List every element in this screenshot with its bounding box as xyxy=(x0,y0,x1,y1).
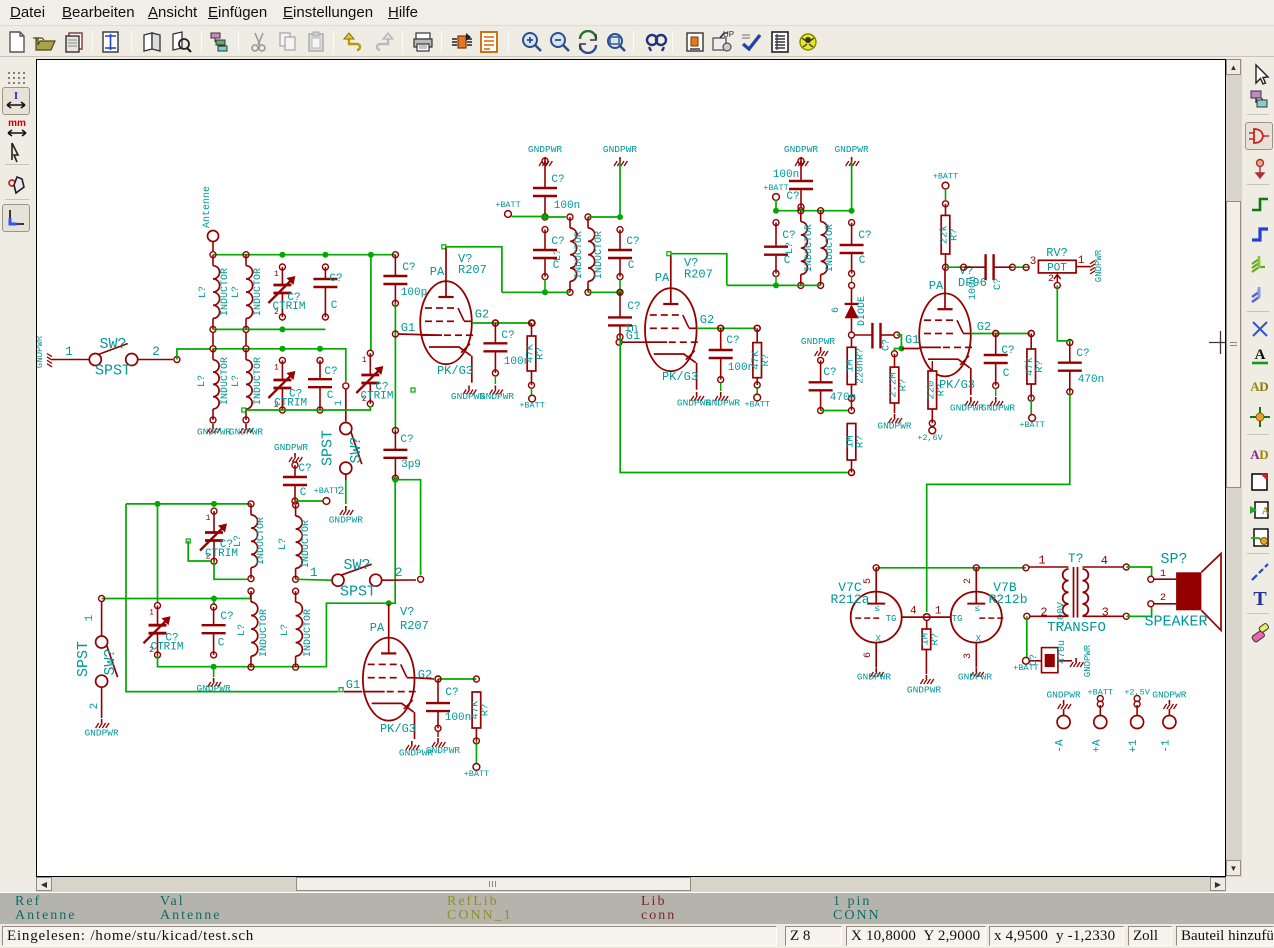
svg-text:C?: C? xyxy=(329,273,342,285)
svg-text:CTRIM: CTRIM xyxy=(205,548,238,560)
svg-text:1: 1 xyxy=(65,344,73,359)
svg-text:2: 2 xyxy=(152,344,160,359)
svg-text:V?: V? xyxy=(400,605,414,619)
svg-text:3: 3 xyxy=(1030,256,1037,268)
svg-text:100n: 100n xyxy=(968,276,979,300)
svg-text:TG: TG xyxy=(952,614,963,624)
svg-text:1: 1 xyxy=(149,609,154,618)
svg-text:R?: R? xyxy=(856,348,867,360)
svg-text:2: 2 xyxy=(1040,606,1047,620)
svg-text:GNDPWR: GNDPWR xyxy=(801,336,836,347)
svg-text:C: C xyxy=(859,255,866,267)
svg-text:SPEAKER: SPEAKER xyxy=(1144,614,1207,631)
svg-text:+BATT: +BATT xyxy=(1019,420,1045,430)
svg-text:GNDPWR: GNDPWR xyxy=(958,672,993,683)
svg-text:≤: ≤ xyxy=(874,604,879,614)
svg-text:INDUCTOR: INDUCTOR xyxy=(220,357,231,405)
svg-text:R212a: R212a xyxy=(830,592,869,607)
svg-text:INDUCTOR: INDUCTOR xyxy=(259,609,270,657)
svg-text:INDUCTOR: INDUCTOR xyxy=(301,520,312,568)
svg-text:+BATT: +BATT xyxy=(763,183,789,193)
svg-text:+A: +A xyxy=(1091,739,1103,753)
svg-text:+1: +1 xyxy=(1128,739,1140,753)
svg-text:+BATT: +BATT xyxy=(744,400,770,410)
svg-text:SPST: SPST xyxy=(75,641,92,677)
svg-text:100p: 100p xyxy=(401,287,427,299)
svg-text:C: C xyxy=(784,255,791,267)
svg-text:PA: PA xyxy=(929,279,944,293)
svg-text:2: 2 xyxy=(395,565,403,580)
svg-text:SPST: SPST xyxy=(320,430,337,466)
svg-text:GNDPWR: GNDPWR xyxy=(37,335,45,368)
svg-text:+BATT: +BATT xyxy=(519,401,545,411)
svg-text:220n: 220n xyxy=(856,360,867,384)
svg-text:6: 6 xyxy=(863,652,874,658)
svg-text:C?: C? xyxy=(1001,345,1014,357)
svg-text:≤: ≤ xyxy=(975,604,980,614)
svg-text:UP: UP xyxy=(723,30,734,39)
svg-text:GNDPWR: GNDPWR xyxy=(1094,249,1104,282)
svg-text:C: C xyxy=(331,300,338,312)
svg-text:C?: C? xyxy=(627,301,640,313)
svg-text:1: 1 xyxy=(310,565,318,580)
svg-text:+BATT: +BATT xyxy=(314,486,340,496)
svg-text:C: C xyxy=(327,390,334,402)
svg-text:INDUCTOR: INDUCTOR xyxy=(256,517,267,565)
svg-text:INDUCTOR: INDUCTOR xyxy=(253,268,264,316)
svg-text:C?: C? xyxy=(823,367,836,379)
svg-text:GNDPWR: GNDPWR xyxy=(834,144,869,155)
svg-text:C: C xyxy=(300,487,307,499)
svg-text:C?: C? xyxy=(626,236,639,248)
svg-text:2: 2 xyxy=(89,703,101,710)
svg-text:CTRIM: CTRIM xyxy=(360,391,393,403)
svg-text:+BATT: +BATT xyxy=(495,200,521,210)
svg-text:GNDPWR: GNDPWR xyxy=(196,683,231,694)
svg-text:L?: L? xyxy=(237,624,248,636)
svg-text:1: 1 xyxy=(334,400,345,406)
svg-text:1: 1 xyxy=(362,356,367,365)
svg-text:6: 6 xyxy=(831,307,842,313)
svg-text:-A: -A xyxy=(1055,739,1067,753)
svg-text:R207: R207 xyxy=(684,268,713,282)
svg-text:C?: C? xyxy=(782,230,795,242)
svg-text:T?: T? xyxy=(1068,551,1084,566)
svg-text:R?: R? xyxy=(855,435,867,448)
svg-text:2: 2 xyxy=(338,486,345,498)
svg-text:GNDPWR: GNDPWR xyxy=(84,728,119,739)
svg-text:R?: R? xyxy=(949,228,961,241)
svg-text:4: 4 xyxy=(910,605,917,617)
svg-text:3: 3 xyxy=(1102,606,1109,620)
svg-text:G1: G1 xyxy=(401,321,415,335)
svg-text:C?: C? xyxy=(993,278,1004,290)
svg-text:SW?: SW? xyxy=(348,436,365,463)
svg-text:3p9: 3p9 xyxy=(401,459,421,471)
svg-text:POT: POT xyxy=(1047,263,1067,275)
svg-text:470u: 470u xyxy=(1057,640,1068,664)
svg-text:INDUCTOR: INDUCTOR xyxy=(804,224,815,272)
svg-text:T: T xyxy=(1253,588,1267,610)
svg-text:+BATT: +BATT xyxy=(933,172,959,182)
svg-text:DIODE: DIODE xyxy=(857,296,868,326)
svg-text:C?: C? xyxy=(298,463,311,475)
svg-text:C: C xyxy=(628,260,635,272)
svg-text:GNDPWR: GNDPWR xyxy=(528,144,563,155)
svg-text:C?: C? xyxy=(501,330,514,342)
svg-text:D: D xyxy=(1259,379,1268,394)
svg-text:G1: G1 xyxy=(905,333,919,347)
svg-text:GNDPWR: GNDPWR xyxy=(426,745,461,756)
svg-text:GNDPWR: GNDPWR xyxy=(907,685,942,696)
svg-text:R?: R? xyxy=(535,347,547,360)
svg-text:SPST: SPST xyxy=(340,584,376,601)
svg-text:L?: L? xyxy=(233,535,244,547)
svg-text:+2,6V: +2,6V xyxy=(917,433,943,443)
svg-text:G2: G2 xyxy=(418,668,432,682)
svg-text:Antenne: Antenne xyxy=(202,186,213,228)
svg-text:R?: R? xyxy=(479,704,491,717)
svg-text:INDUCTOR: INDUCTOR xyxy=(825,224,836,272)
svg-text:L?: L? xyxy=(278,538,289,550)
svg-text:SW?: SW? xyxy=(99,336,126,353)
svg-text:GNDPWR: GNDPWR xyxy=(329,515,364,526)
svg-text:G2: G2 xyxy=(700,313,714,327)
svg-text:L?: L? xyxy=(197,375,208,387)
svg-text:C?: C? xyxy=(551,174,564,186)
svg-text:C?: C? xyxy=(551,236,564,248)
svg-text:GNDPWR: GNDPWR xyxy=(877,421,912,432)
svg-text:mm: mm xyxy=(8,118,26,129)
svg-text:2: 2 xyxy=(1048,274,1054,285)
svg-text:GNDPWR: GNDPWR xyxy=(274,442,309,453)
svg-text:GNDPWR: GNDPWR xyxy=(197,427,232,438)
svg-text:G1: G1 xyxy=(626,329,640,343)
svg-text:L?: L? xyxy=(198,286,209,298)
svg-text:GNDPWR: GNDPWR xyxy=(1083,644,1093,677)
svg-text:PA: PA xyxy=(430,265,445,279)
svg-text:L?: L? xyxy=(231,286,242,298)
svg-text:CTRIM: CTRIM xyxy=(150,642,183,654)
svg-text:RV?: RV? xyxy=(1046,246,1068,260)
svg-text:R212b: R212b xyxy=(988,592,1027,607)
svg-text:100V: 100V xyxy=(1057,602,1068,626)
svg-text:CTRIM: CTRIM xyxy=(272,301,305,313)
svg-text:SPST: SPST xyxy=(95,363,131,380)
svg-text:PA: PA xyxy=(655,271,670,285)
svg-text:GNDPWR: GNDPWR xyxy=(1152,690,1187,701)
svg-text:INDUCTOR: INDUCTOR xyxy=(574,231,585,279)
svg-text:3: 3 xyxy=(963,653,974,659)
svg-text:4: 4 xyxy=(1101,554,1108,568)
svg-text:R?: R? xyxy=(935,384,947,397)
svg-text:1: 1 xyxy=(1078,255,1085,267)
svg-text:100n: 100n xyxy=(554,200,580,212)
svg-text:470n: 470n xyxy=(1078,374,1104,386)
svg-text:C?: C? xyxy=(726,335,739,347)
svg-text:470n: 470n xyxy=(830,392,856,404)
svg-text:L?: L? xyxy=(280,624,291,636)
svg-text:GNDPWR: GNDPWR xyxy=(784,144,819,155)
svg-text:INDUCTOR: INDUCTOR xyxy=(594,231,605,279)
svg-text:2: 2 xyxy=(1160,593,1166,604)
svg-text:C?: C? xyxy=(400,434,413,446)
svg-text:5: 5 xyxy=(863,578,874,584)
svg-text:C?: C? xyxy=(882,339,893,351)
svg-text:2: 2 xyxy=(963,578,974,584)
svg-text:A: A xyxy=(1262,506,1270,517)
svg-text:1: 1 xyxy=(206,514,211,523)
svg-text:GNDPWR: GNDPWR xyxy=(229,427,264,438)
svg-text:C?: C? xyxy=(1029,654,1040,666)
svg-text:C: C xyxy=(218,638,225,650)
svg-text:C?: C? xyxy=(858,230,871,242)
svg-text:L?: L? xyxy=(231,375,242,387)
svg-text:TG: TG xyxy=(886,614,897,624)
svg-text:C: C xyxy=(553,260,560,272)
svg-text:+BATT: +BATT xyxy=(464,769,490,779)
svg-text:PA: PA xyxy=(370,621,385,635)
svg-text:R207: R207 xyxy=(458,263,487,277)
svg-text:GNDPWR: GNDPWR xyxy=(981,403,1016,414)
svg-text:G1: G1 xyxy=(346,678,360,692)
svg-text:G2: G2 xyxy=(475,308,489,322)
svg-text:C?: C? xyxy=(1076,348,1089,360)
svg-text:R?: R? xyxy=(898,379,910,392)
svg-text:100n: 100n xyxy=(445,712,471,724)
svg-text:1: 1 xyxy=(84,614,96,621)
svg-text:R207: R207 xyxy=(400,619,429,633)
svg-text:1: 1 xyxy=(1160,569,1166,580)
svg-text:R?: R? xyxy=(760,354,772,367)
svg-text:INDUCTOR: INDUCTOR xyxy=(303,609,314,657)
svg-text:SW?: SW? xyxy=(343,557,370,574)
svg-text:R?: R? xyxy=(1034,360,1046,373)
svg-text:INDUCTOR: INDUCTOR xyxy=(253,357,264,405)
svg-text:A: A xyxy=(1255,347,1266,363)
svg-text:C?: C? xyxy=(445,687,458,699)
svg-text:100n: 100n xyxy=(773,169,799,181)
svg-text:GNDPWR: GNDPWR xyxy=(706,398,741,409)
svg-text:SP?: SP? xyxy=(1160,551,1187,568)
svg-text:C?: C? xyxy=(324,366,337,378)
svg-text:C?: C? xyxy=(220,611,233,623)
svg-text:GNDPWR: GNDPWR xyxy=(603,144,638,155)
svg-text:L?: L? xyxy=(785,242,796,254)
svg-text:INDUCTOR: INDUCTOR xyxy=(220,268,231,316)
svg-text:GNDPWR: GNDPWR xyxy=(480,391,515,402)
svg-text:1: 1 xyxy=(274,270,279,279)
svg-text:GNDPWR: GNDPWR xyxy=(857,672,892,683)
svg-text:GNDPWR: GNDPWR xyxy=(1046,690,1081,701)
svg-text:SW?: SW? xyxy=(102,648,119,675)
svg-text:GNDPWR: GNDPWR xyxy=(950,403,985,414)
svg-text:PK/G3: PK/G3 xyxy=(380,722,416,736)
svg-text:C: C xyxy=(1003,368,1010,380)
svg-text:PK/G3: PK/G3 xyxy=(662,370,698,384)
svg-text:I: I xyxy=(14,90,18,102)
svg-text:G2: G2 xyxy=(977,320,991,334)
svg-text:D: D xyxy=(1259,447,1268,462)
svg-text:1: 1 xyxy=(274,363,279,372)
svg-text:1: 1 xyxy=(935,605,942,617)
svg-text:-1: -1 xyxy=(1160,739,1172,753)
svg-text:CTRIM: CTRIM xyxy=(274,398,307,410)
svg-text:1: 1 xyxy=(1038,554,1045,568)
svg-text:R?: R? xyxy=(929,633,941,646)
svg-text:PK/G3: PK/G3 xyxy=(437,364,473,378)
svg-text:C?: C? xyxy=(402,262,415,274)
